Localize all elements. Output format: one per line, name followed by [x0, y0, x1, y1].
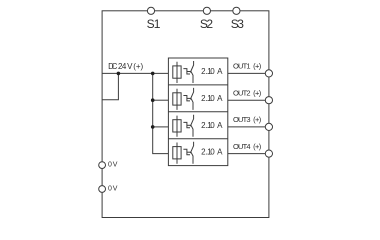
svg-text:A: A [217, 121, 223, 130]
svg-text:(+): (+) [253, 62, 262, 71]
svg-text:(+): (+) [253, 115, 262, 124]
svg-text:1: 1 [154, 17, 161, 31]
svg-text:(+): (+) [133, 62, 143, 71]
svg-text:A: A [217, 94, 223, 103]
svg-text:(+): (+) [253, 89, 262, 98]
svg-text:DC: DC [108, 62, 118, 71]
svg-text:OUT1: OUT1 [233, 62, 251, 71]
svg-text:2: 2 [206, 17, 213, 31]
svg-text:0: 0 [210, 67, 215, 76]
svg-text:0 V: 0 V [108, 186, 118, 193]
svg-text:OUT4: OUT4 [233, 142, 251, 151]
svg-text:OUT2: OUT2 [233, 89, 251, 98]
svg-text:A: A [217, 67, 223, 76]
svg-text:OUT3: OUT3 [233, 115, 251, 124]
svg-text:0: 0 [210, 94, 215, 103]
svg-text:0 V: 0 V [108, 162, 118, 169]
svg-text:0: 0 [210, 148, 215, 157]
svg-text:A: A [217, 148, 223, 157]
svg-text:V: V [127, 62, 133, 71]
svg-text:(+): (+) [253, 142, 262, 151]
svg-text:24: 24 [118, 62, 127, 71]
svg-text:0: 0 [210, 121, 215, 130]
svg-text:3: 3 [237, 17, 244, 31]
